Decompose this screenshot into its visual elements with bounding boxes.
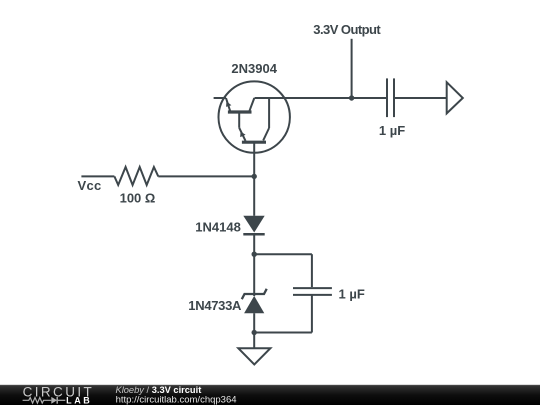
resistor R1 100 ohm zigzag xyxy=(114,167,158,185)
wire capacitor C2 top vertical xyxy=(311,254,313,287)
node output junction xyxy=(349,95,354,100)
node resistor junction xyxy=(252,174,257,179)
wire transistor emitter down to resistor node xyxy=(253,142,255,176)
wire output vertical xyxy=(351,39,353,98)
wire diode D1 to node xyxy=(253,236,255,255)
wire capacitor C2 bottom vertical xyxy=(311,295,313,333)
svg-text:LAB: LAB xyxy=(66,396,92,405)
node ground junction xyxy=(252,330,257,335)
wire resistor to rail xyxy=(158,175,254,177)
svg-text:Vcc: Vcc xyxy=(78,178,102,193)
output port triangle xyxy=(447,82,463,113)
svg-text:http://circuitlab.com/chqp364: http://circuitlab.com/chqp364 xyxy=(116,394,237,405)
wire Vcc lead xyxy=(81,175,114,177)
node diode junction xyxy=(252,252,257,257)
capacitor C2 plates xyxy=(293,288,332,295)
svg-text:1N4733A: 1N4733A xyxy=(188,298,242,313)
svg-text:1N4148: 1N4148 xyxy=(195,220,241,235)
wire capacitor C2 bottom horizontal xyxy=(254,332,312,334)
svg-text:1 µF: 1 µF xyxy=(339,287,365,302)
wire node to ground xyxy=(253,333,255,349)
CircuitLab logo xyxy=(23,384,95,405)
wire zener to ground node xyxy=(253,313,255,332)
ground symbol xyxy=(238,348,270,364)
svg-text:100 Ω: 100 Ω xyxy=(120,190,156,205)
transistor Q1 2N3904 xyxy=(214,81,290,152)
footer bar xyxy=(0,385,540,405)
svg-text:3.3V Output: 3.3V Output xyxy=(313,22,381,37)
wire node to diode D1 xyxy=(253,176,255,215)
svg-text:1 µF: 1 µF xyxy=(379,123,405,138)
wire capacitor to output port xyxy=(394,97,447,99)
wire node down to zener D2 xyxy=(253,254,255,296)
zener diode D2 1N4733A xyxy=(242,289,267,313)
diode D1 1N4148 xyxy=(243,216,264,235)
wire node to capacitor C2 top horizontal xyxy=(254,253,312,255)
svg-text:2N3904: 2N3904 xyxy=(231,61,277,76)
capacitor C1 plates xyxy=(387,78,394,117)
wire main horizontal collector to capacitor xyxy=(255,97,387,99)
